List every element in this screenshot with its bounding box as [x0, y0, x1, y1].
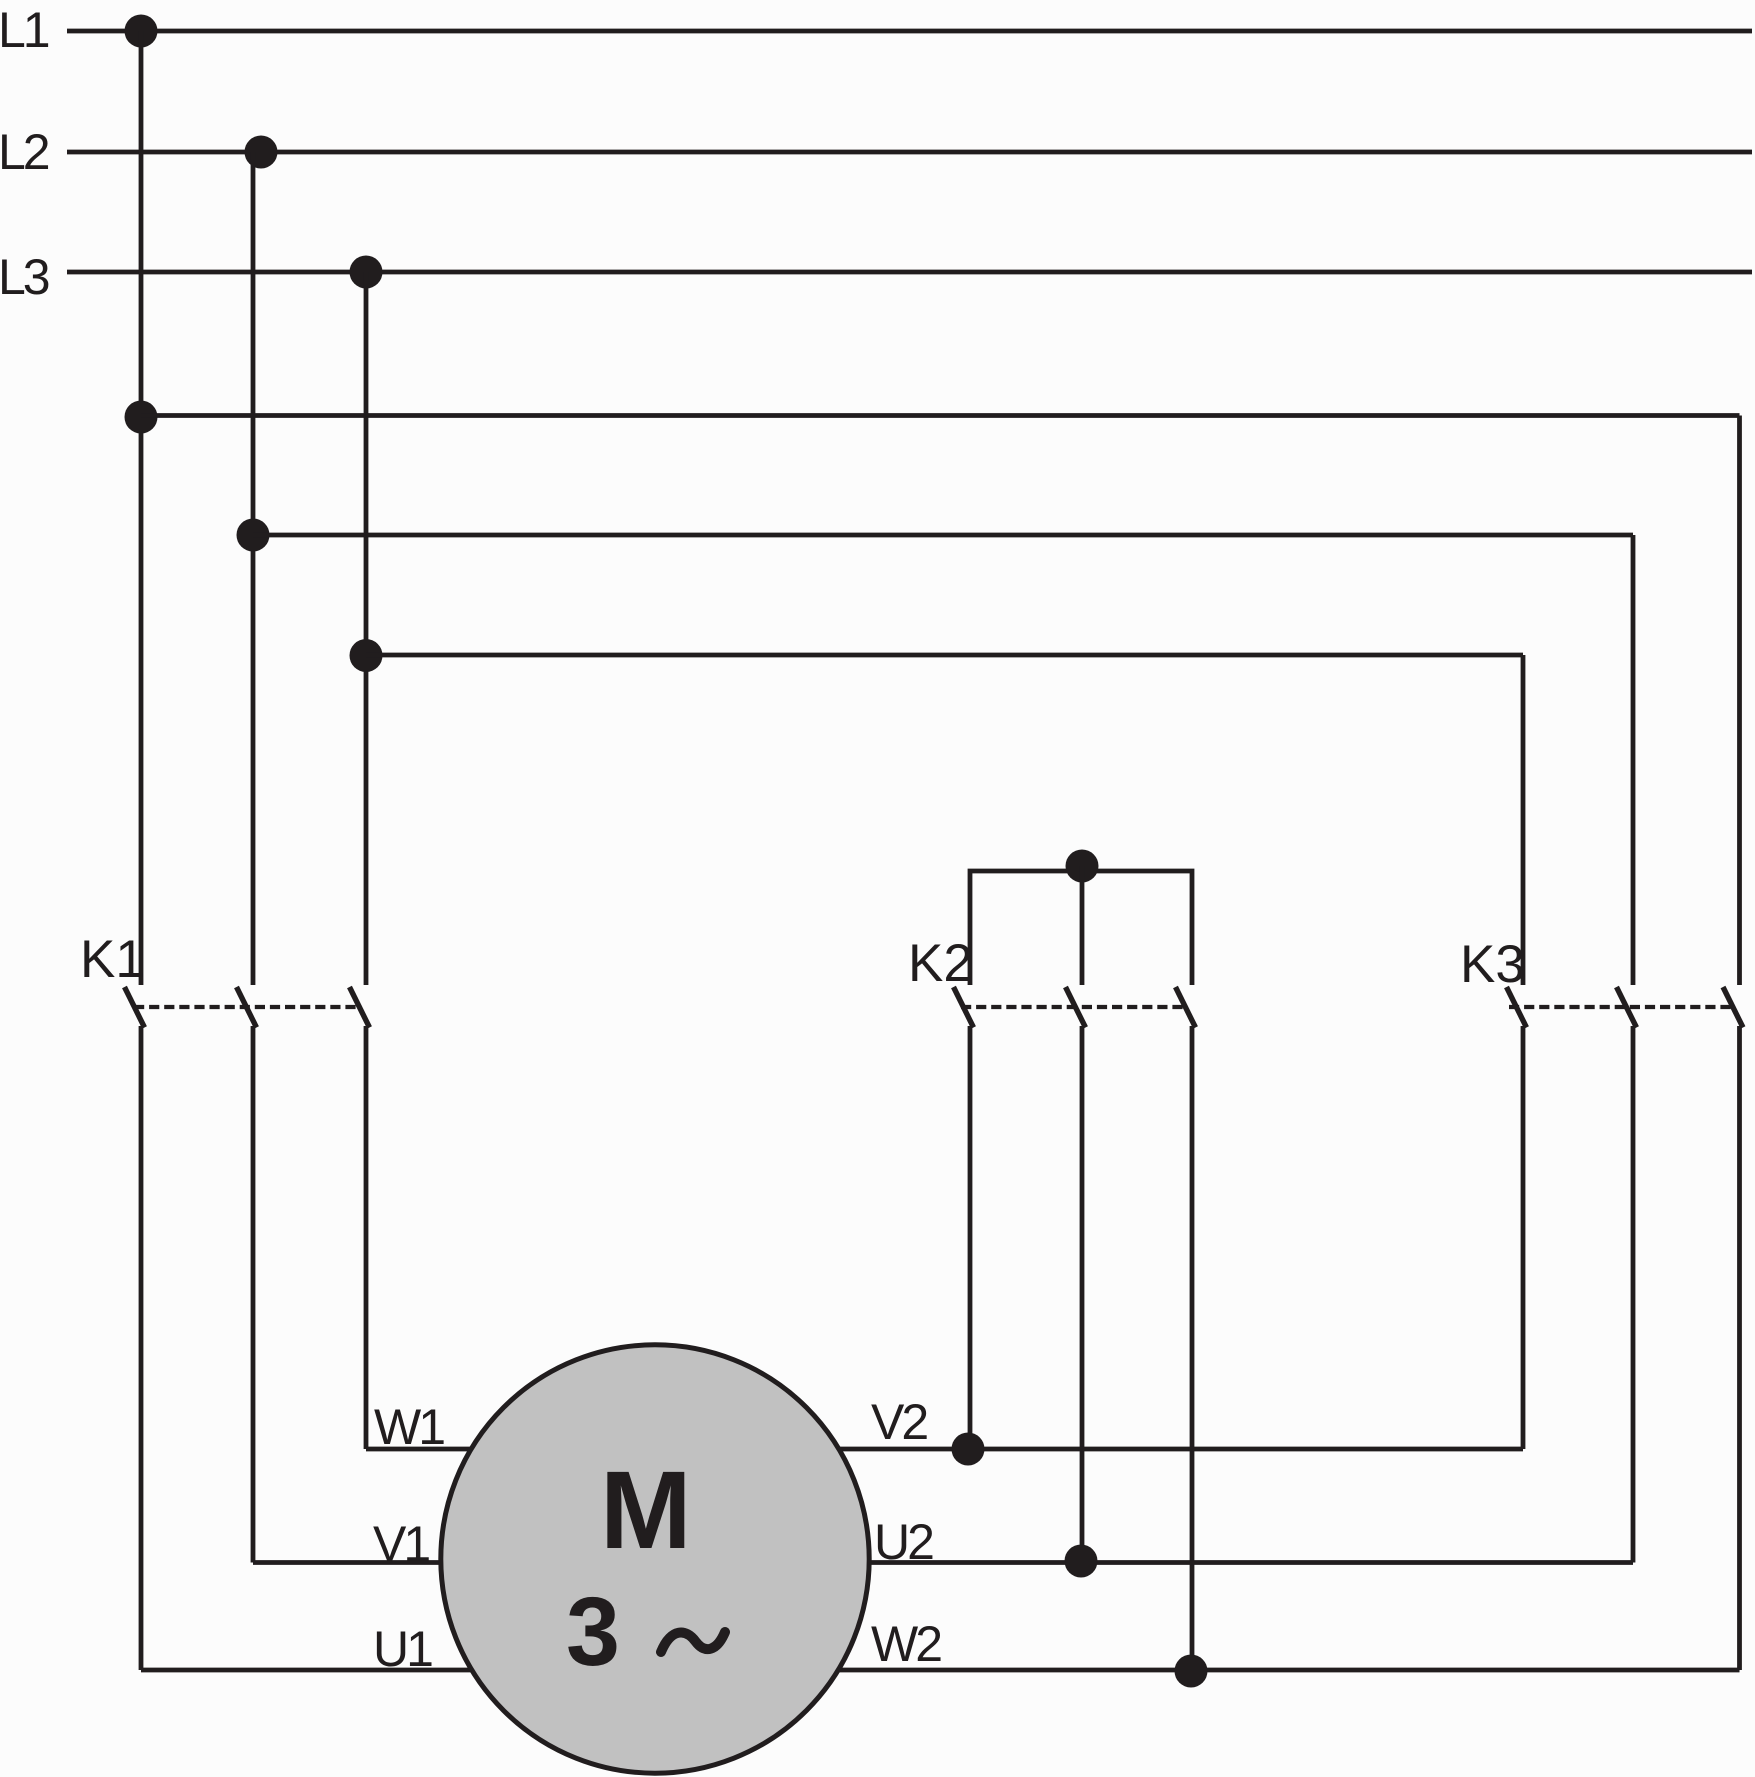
svg-text:V2: V2 — [871, 1394, 927, 1450]
wire K1 pole 2 to V1 corner — [251, 1026, 256, 1563]
svg-text:L2: L2 — [0, 124, 49, 180]
node dot L1 tap — [125, 15, 158, 48]
svg-text:U1: U1 — [373, 1621, 432, 1677]
wire K2 pole 3 down to W2 node — [1190, 1026, 1195, 1670]
svg-text:3: 3 — [566, 1577, 620, 1686]
node dot L2 tap — [245, 136, 278, 169]
K2 linkage dashed line — [961, 1005, 1186, 1009]
svg-text:U2: U2 — [874, 1514, 933, 1570]
svg-text:L3: L3 — [0, 249, 49, 305]
wire right down to K3 pole 3 — [1737, 416, 1742, 986]
motor M1 circle — [441, 1345, 869, 1773]
node dot U2 — [1065, 1545, 1098, 1578]
wire tap L3 across to right — [366, 653, 1523, 658]
node dot L3 tap — [350, 256, 383, 289]
wire row U1-W2 — [141, 1668, 1740, 1673]
wire L3 down to K1 pole 3 — [364, 272, 369, 985]
K3 linkage dashed line — [1509, 1005, 1732, 1009]
svg-text:M: M — [600, 1449, 692, 1572]
motor tilde symbol — [661, 1632, 725, 1652]
wire tap L1 across to right — [141, 413, 1740, 418]
contactor K2 pole 2 blade — [1066, 987, 1086, 1028]
svg-text:K1: K1 — [80, 930, 145, 989]
wire K2 pole 1 down to V2 node — [968, 1026, 973, 1449]
node dot tap L3 to K3 — [350, 639, 383, 672]
svg-text:W2: W2 — [871, 1616, 941, 1672]
svg-text:K2: K2 — [908, 934, 973, 993]
contactor K1 pole 3 blade — [350, 987, 370, 1028]
K2 star bridge wire — [970, 871, 1192, 985]
wire row V1-U2 — [253, 1560, 1633, 1565]
svg-text:V1: V1 — [373, 1516, 429, 1572]
svg-text:L1: L1 — [0, 2, 49, 58]
wire K3 pole 1 down to V2 line — [1521, 1026, 1526, 1449]
K1 linkage dashed line — [134, 1005, 359, 1009]
wire K3 pole 3 down to W2 line — [1737, 1026, 1742, 1670]
node dot tap L2 to K3 — [237, 519, 270, 552]
wire K3 pole 2 down to U2 line — [1631, 1026, 1636, 1563]
contactor K2 pole 1 blade — [954, 987, 974, 1028]
wire right down to K3 pole 2 — [1631, 535, 1636, 985]
contactor K3 pole 3 blade — [1723, 987, 1743, 1028]
contactor K3 pole 2 blade — [1617, 987, 1637, 1028]
svg-text:W1: W1 — [374, 1399, 444, 1455]
node dot V2 — [952, 1433, 985, 1466]
wire L1 down to K1 pole 1 — [139, 31, 144, 985]
contactor K1 pole 2 blade — [237, 987, 257, 1028]
wire K1 pole 3 to W1 corner — [364, 1026, 369, 1449]
wire K2 pole 2 down to U2 node — [1080, 1026, 1085, 1563]
wire right down to K3 pole 1 — [1521, 655, 1526, 985]
contactor K2 pole 3 blade — [1176, 987, 1196, 1028]
node dot W2 — [1175, 1655, 1208, 1688]
phase line L3 — [67, 270, 1752, 275]
wire row W1-V2 — [366, 1447, 1523, 1452]
phase line L2 — [67, 150, 1752, 155]
contactor K1 pole 1 blade — [125, 987, 145, 1028]
phase line L1 — [67, 29, 1752, 34]
wire L2 down to K1 pole 2 — [251, 152, 256, 985]
wire tap L2 across to right — [253, 533, 1633, 538]
contactor K3 pole 1 blade — [1507, 987, 1527, 1028]
node dot star point — [1066, 850, 1099, 883]
svg-text:K3: K3 — [1460, 935, 1525, 994]
wire star point down to K2 pole 2 — [1080, 866, 1085, 985]
wire K1 pole 1 to U1 corner — [139, 1026, 144, 1670]
node dot tap L1 to K3 — [125, 401, 158, 434]
